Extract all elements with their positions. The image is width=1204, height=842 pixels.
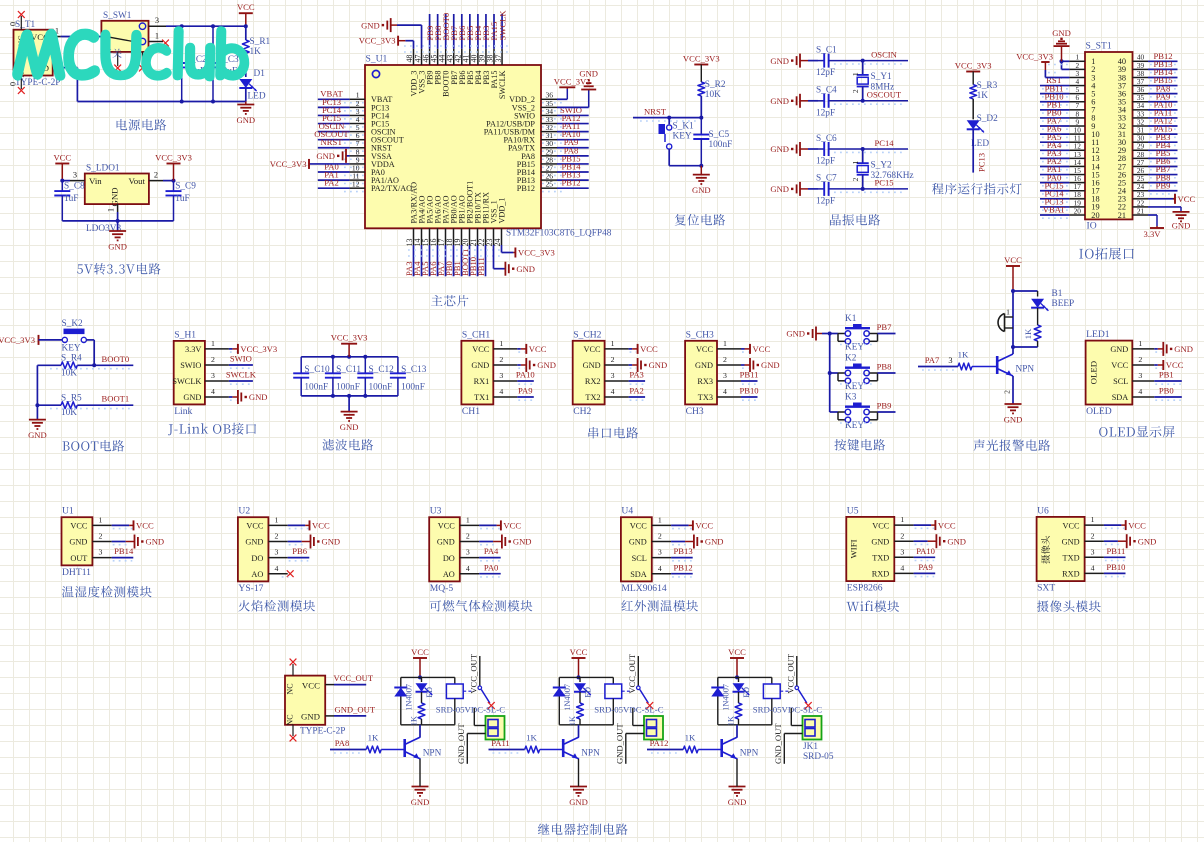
svg-text:1: 1 bbox=[1091, 515, 1095, 524]
svg-text:GND: GND bbox=[761, 360, 780, 370]
svg-text:S_R3: S_R3 bbox=[977, 81, 998, 91]
svg-text:VCC: VCC bbox=[472, 345, 490, 354]
svg-text:GND: GND bbox=[108, 242, 127, 252]
svg-text:PA4: PA4 bbox=[484, 546, 499, 556]
svg-text:GND: GND bbox=[69, 538, 87, 547]
svg-text:VCC_3V3: VCC_3V3 bbox=[683, 54, 720, 64]
svg-text:GND_OUT: GND_OUT bbox=[335, 704, 376, 714]
svg-text:VCC_3V3: VCC_3V3 bbox=[240, 344, 277, 354]
svg-text:RXD: RXD bbox=[1062, 570, 1080, 579]
svg-text:1: 1 bbox=[658, 516, 662, 525]
svg-text:100nF: 100nF bbox=[369, 383, 393, 393]
svg-text:SCL: SCL bbox=[632, 554, 647, 563]
svg-text:PB11: PB11 bbox=[740, 370, 759, 380]
svg-text:PC14: PC14 bbox=[874, 138, 894, 148]
svg-text:PB11: PB11 bbox=[476, 257, 486, 276]
svg-text:PB8: PB8 bbox=[877, 362, 892, 372]
svg-text:GND: GND bbox=[1174, 344, 1193, 354]
svg-text:GND: GND bbox=[770, 96, 789, 106]
svg-text:IO: IO bbox=[1087, 221, 1097, 232]
svg-text:GND: GND bbox=[786, 329, 805, 339]
svg-text:DHT11: DHT11 bbox=[62, 567, 91, 578]
svg-text:FD: FD bbox=[425, 687, 434, 698]
svg-text:VCC: VCC bbox=[1004, 255, 1022, 265]
svg-text:S_C9: S_C9 bbox=[175, 181, 196, 191]
svg-text:GND: GND bbox=[340, 422, 359, 432]
svg-text:1: 1 bbox=[211, 339, 215, 348]
svg-text:FD: FD bbox=[584, 687, 593, 698]
svg-text:VCC: VCC bbox=[1178, 194, 1196, 204]
svg-text:PB13: PB13 bbox=[674, 546, 693, 556]
svg-text:4: 4 bbox=[274, 564, 278, 573]
svg-text:1K: 1K bbox=[368, 733, 379, 743]
svg-text:10K: 10K bbox=[61, 408, 77, 418]
svg-text:GND: GND bbox=[1052, 28, 1071, 38]
svg-text:1: 1 bbox=[98, 516, 102, 525]
svg-text:GND: GND bbox=[322, 537, 341, 547]
svg-text:S_C7: S_C7 bbox=[816, 174, 837, 184]
svg-text:10K: 10K bbox=[61, 368, 77, 378]
svg-text:4: 4 bbox=[211, 387, 215, 396]
svg-text:S_SW1: S_SW1 bbox=[103, 11, 132, 21]
svg-text:SRD-05VDC-SL-C: SRD-05VDC-SL-C bbox=[594, 705, 664, 715]
svg-text:2: 2 bbox=[900, 531, 904, 540]
svg-text:S_ST1: S_ST1 bbox=[1086, 41, 1112, 52]
svg-text:Link: Link bbox=[174, 406, 192, 417]
svg-text:VCC: VCC bbox=[70, 522, 88, 531]
svg-text:VCC_3V3: VCC_3V3 bbox=[155, 153, 192, 163]
svg-text:VCC_OUT: VCC_OUT bbox=[468, 653, 478, 693]
svg-text:BOOT1: BOOT1 bbox=[102, 394, 130, 404]
svg-text:1: 1 bbox=[1006, 308, 1010, 317]
svg-text:NPN: NPN bbox=[740, 749, 759, 759]
svg-text:LED1: LED1 bbox=[1086, 329, 1110, 340]
svg-text:PA10: PA10 bbox=[916, 546, 935, 556]
svg-text:SRD-05VDC-SL-C: SRD-05VDC-SL-C bbox=[436, 705, 506, 715]
svg-text:4: 4 bbox=[466, 564, 470, 573]
svg-text:VCC: VCC bbox=[696, 345, 714, 354]
svg-text:LED: LED bbox=[248, 92, 266, 102]
svg-text:0: 0 bbox=[9, 22, 18, 26]
svg-text:GND: GND bbox=[236, 115, 255, 125]
svg-text:4: 4 bbox=[723, 387, 727, 396]
svg-text:12pF: 12pF bbox=[816, 108, 835, 118]
svg-text:S_CH2: S_CH2 bbox=[573, 329, 601, 340]
svg-text:GND: GND bbox=[537, 360, 556, 370]
svg-text:1: 1 bbox=[723, 339, 727, 348]
svg-text:VCC: VCC bbox=[438, 522, 456, 531]
svg-text:VCC: VCC bbox=[640, 344, 658, 354]
svg-text:OLED: OLED bbox=[1086, 406, 1112, 417]
svg-text:TXD: TXD bbox=[872, 554, 889, 563]
svg-text:1K: 1K bbox=[977, 91, 989, 101]
svg-text:S_C6: S_C6 bbox=[816, 134, 837, 144]
svg-text:S_T1: S_T1 bbox=[15, 20, 35, 30]
svg-text:RX2: RX2 bbox=[585, 377, 601, 386]
svg-text:20: 20 bbox=[1074, 206, 1082, 215]
svg-text:S_CH1: S_CH1 bbox=[462, 329, 490, 340]
svg-text:4: 4 bbox=[611, 387, 615, 396]
svg-text:VCC_3V3: VCC_3V3 bbox=[1016, 51, 1053, 61]
svg-text:AO: AO bbox=[443, 570, 455, 579]
svg-text:U6: U6 bbox=[1037, 505, 1049, 516]
svg-text:1: 1 bbox=[900, 515, 904, 524]
svg-text:1N4007: 1N4007 bbox=[404, 684, 413, 711]
svg-text:U3: U3 bbox=[430, 506, 442, 517]
svg-text:GND: GND bbox=[411, 797, 430, 807]
svg-text:NPN: NPN bbox=[423, 749, 442, 759]
svg-text:1K: 1K bbox=[526, 733, 537, 743]
svg-text:U2: U2 bbox=[238, 506, 250, 517]
svg-text:NRST: NRST bbox=[321, 137, 344, 147]
svg-text:12pF: 12pF bbox=[816, 196, 835, 206]
svg-text:GND: GND bbox=[947, 536, 966, 546]
svg-text:1K: 1K bbox=[727, 716, 736, 726]
svg-text:GND: GND bbox=[316, 151, 335, 161]
svg-text:GND: GND bbox=[301, 712, 320, 722]
svg-text:1K: 1K bbox=[685, 733, 696, 743]
svg-text:NC: NC bbox=[286, 714, 295, 725]
svg-text:S_R1: S_R1 bbox=[250, 37, 271, 47]
svg-text:WIFI: WIFI bbox=[848, 539, 858, 558]
svg-text:GND: GND bbox=[1138, 536, 1157, 546]
svg-text:GND: GND bbox=[1062, 537, 1080, 546]
svg-text:SDA: SDA bbox=[1112, 393, 1129, 402]
svg-text:1: 1 bbox=[107, 208, 116, 212]
svg-text:VCC_3V3: VCC_3V3 bbox=[331, 333, 368, 343]
svg-text:K1: K1 bbox=[845, 314, 857, 324]
svg-text:D1: D1 bbox=[254, 69, 266, 79]
svg-text:PB6: PB6 bbox=[292, 546, 308, 556]
svg-text:2: 2 bbox=[851, 177, 860, 181]
svg-text:1uF: 1uF bbox=[64, 194, 78, 204]
svg-text:SXT: SXT bbox=[1037, 583, 1055, 594]
svg-text:OUT: OUT bbox=[70, 554, 87, 563]
svg-text:GND: GND bbox=[183, 393, 201, 402]
svg-text:2: 2 bbox=[658, 532, 662, 541]
svg-text:VCC_3V3: VCC_3V3 bbox=[0, 335, 35, 345]
svg-text:SCL: SCL bbox=[1113, 377, 1128, 386]
svg-text:S_K2: S_K2 bbox=[62, 319, 84, 329]
svg-text:SWCLK: SWCLK bbox=[497, 10, 507, 41]
svg-text:TX1: TX1 bbox=[474, 393, 489, 402]
svg-text:RX3: RX3 bbox=[697, 377, 713, 386]
svg-text:PA12: PA12 bbox=[650, 738, 669, 748]
svg-text:VBAT: VBAT bbox=[1043, 205, 1066, 215]
svg-text:S_R5: S_R5 bbox=[61, 393, 82, 403]
svg-text:VCC: VCC bbox=[246, 522, 264, 531]
svg-text:KEY: KEY bbox=[845, 343, 864, 353]
svg-text:100nF: 100nF bbox=[401, 383, 425, 393]
svg-text:VCC: VCC bbox=[872, 521, 890, 530]
svg-text:37: 37 bbox=[494, 55, 503, 63]
svg-text:Vin: Vin bbox=[89, 176, 102, 186]
svg-text:PA2: PA2 bbox=[324, 178, 339, 188]
svg-text:U4: U4 bbox=[621, 506, 633, 517]
svg-text:KEY: KEY bbox=[673, 132, 692, 142]
svg-text:YS-17: YS-17 bbox=[238, 583, 263, 594]
svg-text:4: 4 bbox=[1138, 387, 1142, 396]
svg-text:GND: GND bbox=[695, 361, 713, 370]
svg-text:1K: 1K bbox=[1023, 328, 1033, 339]
svg-text:GND: GND bbox=[516, 264, 535, 274]
svg-text:STM32F103C8T6_LQFP48: STM32F103C8T6_LQFP48 bbox=[506, 229, 612, 239]
svg-text:PA0: PA0 bbox=[484, 562, 499, 572]
svg-text:GND: GND bbox=[513, 537, 532, 547]
svg-text:SWCLK: SWCLK bbox=[172, 377, 201, 386]
svg-text:U1: U1 bbox=[62, 506, 74, 517]
svg-text:1: 1 bbox=[611, 339, 615, 348]
svg-text:2: 2 bbox=[1138, 355, 1142, 364]
svg-text:1K: 1K bbox=[568, 716, 577, 726]
svg-text:1: 1 bbox=[466, 516, 470, 525]
svg-text:12pF: 12pF bbox=[816, 68, 835, 78]
svg-text:GND_OUT: GND_OUT bbox=[614, 723, 624, 764]
svg-text:2: 2 bbox=[851, 89, 860, 93]
svg-text:GND: GND bbox=[770, 56, 789, 66]
svg-text:S_U1: S_U1 bbox=[366, 54, 388, 65]
svg-text:100nF: 100nF bbox=[709, 140, 733, 150]
svg-text:PB0: PB0 bbox=[1159, 386, 1174, 396]
svg-text:GND: GND bbox=[245, 538, 263, 547]
svg-text:RXD: RXD bbox=[872, 570, 890, 579]
svg-text:3.3V: 3.3V bbox=[185, 345, 201, 354]
svg-text:1: 1 bbox=[274, 516, 278, 525]
svg-text:VCC: VCC bbox=[630, 522, 648, 531]
svg-text:GND: GND bbox=[569, 797, 588, 807]
svg-text:B1: B1 bbox=[1052, 289, 1063, 299]
svg-text:PB1: PB1 bbox=[1159, 370, 1174, 380]
svg-text:SWCLK: SWCLK bbox=[498, 70, 507, 99]
svg-text:NRST: NRST bbox=[644, 107, 667, 117]
svg-text:LDO3V3: LDO3V3 bbox=[86, 224, 121, 234]
svg-text:GND: GND bbox=[583, 361, 601, 370]
svg-text:21: 21 bbox=[1137, 206, 1145, 215]
svg-text:2: 2 bbox=[1091, 531, 1095, 540]
svg-text:PA10: PA10 bbox=[516, 370, 535, 380]
svg-text:CH3: CH3 bbox=[686, 406, 704, 417]
svg-text:PC13: PC13 bbox=[977, 153, 987, 172]
svg-text:KEY: KEY bbox=[845, 382, 864, 392]
svg-text:ESP8266: ESP8266 bbox=[847, 583, 883, 594]
svg-text:CH2: CH2 bbox=[573, 406, 591, 417]
svg-text:S_C8: S_C8 bbox=[64, 181, 85, 191]
svg-text:NPN: NPN bbox=[581, 749, 600, 759]
svg-text:SWIO: SWIO bbox=[180, 361, 201, 370]
svg-text:25: 25 bbox=[546, 180, 554, 189]
svg-text:3: 3 bbox=[900, 547, 904, 556]
svg-text:2: 2 bbox=[723, 355, 727, 364]
svg-text:4: 4 bbox=[900, 564, 904, 573]
svg-text:VCC: VCC bbox=[237, 2, 255, 12]
svg-text:S_R4: S_R4 bbox=[61, 354, 82, 364]
svg-text:VCC: VCC bbox=[1111, 361, 1129, 370]
svg-text:PA11: PA11 bbox=[491, 738, 509, 748]
svg-text:3: 3 bbox=[155, 16, 159, 25]
svg-text:VCC: VCC bbox=[728, 647, 746, 657]
svg-text:GND: GND bbox=[871, 537, 889, 546]
svg-text:100nF: 100nF bbox=[304, 383, 328, 393]
svg-text:DO: DO bbox=[443, 554, 455, 563]
svg-text:PB9: PB9 bbox=[1156, 180, 1171, 190]
svg-text:VCC: VCC bbox=[312, 521, 330, 531]
svg-text:VCC: VCC bbox=[136, 521, 154, 531]
svg-text:1K: 1K bbox=[250, 47, 262, 57]
svg-text:3: 3 bbox=[1091, 547, 1095, 556]
svg-text:2: 2 bbox=[611, 355, 615, 364]
svg-text:GND: GND bbox=[1172, 220, 1191, 230]
svg-text:GND: GND bbox=[770, 184, 789, 194]
svg-text:1: 1 bbox=[851, 160, 860, 164]
svg-text:VCC_3V3: VCC_3V3 bbox=[359, 36, 396, 46]
svg-text:PB12: PB12 bbox=[674, 562, 693, 572]
svg-text:VCC_OUT: VCC_OUT bbox=[627, 653, 637, 693]
svg-text:VCC_3V3: VCC_3V3 bbox=[955, 61, 992, 71]
svg-text:PB10: PB10 bbox=[1106, 562, 1125, 572]
svg-text:3: 3 bbox=[611, 371, 615, 380]
svg-text:PA7: PA7 bbox=[925, 355, 940, 365]
svg-text:VCC: VCC bbox=[753, 344, 771, 354]
svg-text:VCC: VCC bbox=[695, 521, 713, 531]
svg-text:GND: GND bbox=[770, 144, 789, 154]
svg-text:TX2: TX2 bbox=[585, 393, 600, 402]
svg-text:4: 4 bbox=[499, 387, 503, 396]
svg-text:PA3: PA3 bbox=[629, 370, 644, 380]
svg-text:SRD-05VDC-SL-C: SRD-05VDC-SL-C bbox=[753, 705, 823, 715]
svg-text:GND: GND bbox=[437, 538, 455, 547]
svg-text:GND: GND bbox=[579, 69, 598, 79]
svg-text:2: 2 bbox=[1002, 390, 1011, 394]
svg-text:4: 4 bbox=[658, 564, 662, 573]
svg-text:MQ-5: MQ-5 bbox=[430, 583, 454, 594]
svg-text:S_H1: S_H1 bbox=[174, 329, 196, 340]
svg-text:OSCIN: OSCIN bbox=[871, 49, 898, 59]
svg-text:TYPE-C-2P: TYPE-C-2P bbox=[300, 727, 345, 737]
svg-text:2: 2 bbox=[466, 532, 470, 541]
svg-text:Vout: Vout bbox=[129, 176, 146, 186]
svg-text:1K: 1K bbox=[410, 716, 419, 726]
svg-text:1N4007: 1N4007 bbox=[721, 684, 730, 711]
svg-text:GND: GND bbox=[249, 392, 268, 402]
svg-text:21: 21 bbox=[1118, 211, 1126, 220]
svg-text:GND: GND bbox=[146, 537, 165, 547]
svg-text:PB12: PB12 bbox=[561, 178, 580, 188]
svg-text:PA2: PA2 bbox=[629, 386, 644, 396]
svg-text:U5: U5 bbox=[847, 505, 859, 516]
svg-text:100nF: 100nF bbox=[336, 383, 360, 393]
svg-text:NPN: NPN bbox=[1016, 365, 1035, 375]
svg-text:S_R2: S_R2 bbox=[705, 80, 726, 90]
svg-text:GND: GND bbox=[629, 538, 647, 547]
svg-text:1N4007: 1N4007 bbox=[563, 684, 572, 711]
svg-text:S_C1: S_C1 bbox=[816, 45, 837, 55]
svg-text:10K: 10K bbox=[705, 90, 721, 100]
svg-text:2: 2 bbox=[499, 355, 503, 364]
svg-text:VCC_3V3: VCC_3V3 bbox=[270, 159, 307, 169]
svg-text:KEY: KEY bbox=[845, 421, 864, 431]
svg-text:VCC: VCC bbox=[1063, 521, 1081, 530]
svg-text:PB11: PB11 bbox=[1107, 546, 1126, 556]
svg-text:BOOT0: BOOT0 bbox=[102, 354, 130, 364]
svg-text:PA8: PA8 bbox=[335, 738, 350, 748]
svg-text:0: 0 bbox=[9, 82, 18, 86]
svg-text:3: 3 bbox=[723, 371, 727, 380]
svg-text:1: 1 bbox=[851, 72, 860, 76]
svg-text:OLED: OLED bbox=[1089, 361, 1099, 384]
svg-text:S_C11: S_C11 bbox=[336, 365, 361, 375]
svg-text:VCC_3V3: VCC_3V3 bbox=[518, 248, 555, 258]
svg-text:2: 2 bbox=[154, 171, 158, 180]
svg-text:3.3V: 3.3V bbox=[1144, 229, 1162, 239]
svg-text:NC: NC bbox=[286, 683, 295, 694]
svg-text:VCC: VCC bbox=[53, 153, 71, 163]
svg-text:AO: AO bbox=[251, 570, 263, 579]
svg-text:S_C10: S_C10 bbox=[304, 365, 330, 375]
svg-text:12: 12 bbox=[352, 180, 360, 189]
svg-text:PB12: PB12 bbox=[517, 184, 535, 193]
svg-text:VCC_OUT: VCC_OUT bbox=[785, 653, 795, 693]
svg-text:SWIO: SWIO bbox=[230, 354, 252, 364]
svg-text:3: 3 bbox=[499, 371, 503, 380]
svg-text:GND: GND bbox=[471, 361, 489, 370]
svg-text:VDD_1: VDD_1 bbox=[498, 198, 507, 224]
svg-text:KEY: KEY bbox=[62, 344, 81, 354]
svg-text:8MHz: 8MHz bbox=[871, 83, 895, 93]
svg-text:S_LDO1: S_LDO1 bbox=[86, 164, 120, 174]
svg-text:S_D2: S_D2 bbox=[977, 114, 999, 124]
svg-text:FD: FD bbox=[742, 687, 751, 698]
svg-text:SRD-05: SRD-05 bbox=[803, 752, 834, 762]
svg-text:3: 3 bbox=[658, 548, 662, 557]
svg-text:GND: GND bbox=[361, 20, 380, 30]
svg-text:VCC: VCC bbox=[938, 520, 956, 530]
svg-text:K3: K3 bbox=[845, 393, 857, 403]
svg-text:S_C5: S_C5 bbox=[709, 130, 730, 140]
svg-text:2: 2 bbox=[274, 532, 278, 541]
svg-text:TXD: TXD bbox=[1063, 554, 1080, 563]
svg-text:4: 4 bbox=[1091, 564, 1095, 573]
svg-text:GND: GND bbox=[1004, 415, 1023, 425]
svg-text:GND: GND bbox=[649, 360, 668, 370]
svg-text:S_Y1: S_Y1 bbox=[871, 72, 893, 82]
svg-text:12pF: 12pF bbox=[816, 157, 835, 167]
svg-text:S_C4: S_C4 bbox=[816, 86, 837, 96]
svg-text:20: 20 bbox=[1091, 211, 1099, 220]
svg-text:K2: K2 bbox=[845, 354, 857, 364]
svg-text:3: 3 bbox=[948, 356, 952, 365]
svg-text:S_C12: S_C12 bbox=[369, 365, 395, 375]
svg-text:GND: GND bbox=[728, 797, 747, 807]
svg-text:1K: 1K bbox=[958, 350, 969, 360]
svg-text:PA9: PA9 bbox=[518, 386, 533, 396]
svg-text:3: 3 bbox=[1138, 371, 1142, 380]
svg-text:S_CH3: S_CH3 bbox=[686, 329, 714, 340]
svg-text:SWCLK: SWCLK bbox=[226, 370, 257, 380]
svg-text:PA2/TX/AO: PA2/TX/AO bbox=[371, 184, 412, 193]
svg-text:3: 3 bbox=[466, 548, 470, 557]
svg-text:GND_OUT: GND_OUT bbox=[773, 723, 783, 764]
svg-text:RX1: RX1 bbox=[474, 377, 490, 386]
svg-text:GND: GND bbox=[28, 430, 47, 440]
svg-text:3: 3 bbox=[98, 548, 102, 557]
svg-text:DO: DO bbox=[251, 554, 263, 563]
svg-text:GND: GND bbox=[705, 537, 724, 547]
svg-text:2: 2 bbox=[98, 532, 102, 541]
svg-text:1: 1 bbox=[499, 339, 503, 348]
svg-text:1: 1 bbox=[155, 32, 159, 41]
svg-text:PB14: PB14 bbox=[114, 546, 134, 556]
svg-text:MLX90614: MLX90614 bbox=[621, 583, 667, 594]
